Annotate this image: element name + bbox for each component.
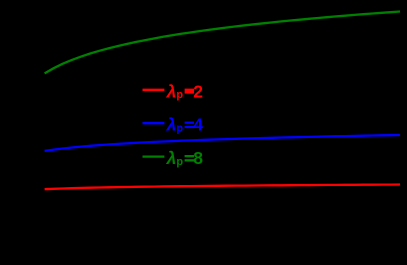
legend sample line lambda_p=8	[143, 155, 165, 157]
svg-text:λp=8: λp=8	[166, 148, 204, 169]
legend sample line lambda_p=2	[143, 89, 165, 91]
red curve lambda_p=2	[45, 185, 400, 190]
svg-text:λp=4: λp=4	[166, 115, 204, 136]
green curve lambda_p=8	[45, 12, 400, 74]
svg-text:λp=2: λp=2	[166, 81, 204, 102]
legend sample line lambda_p=4	[143, 122, 165, 124]
blue curve lambda_p=4	[45, 135, 400, 151]
